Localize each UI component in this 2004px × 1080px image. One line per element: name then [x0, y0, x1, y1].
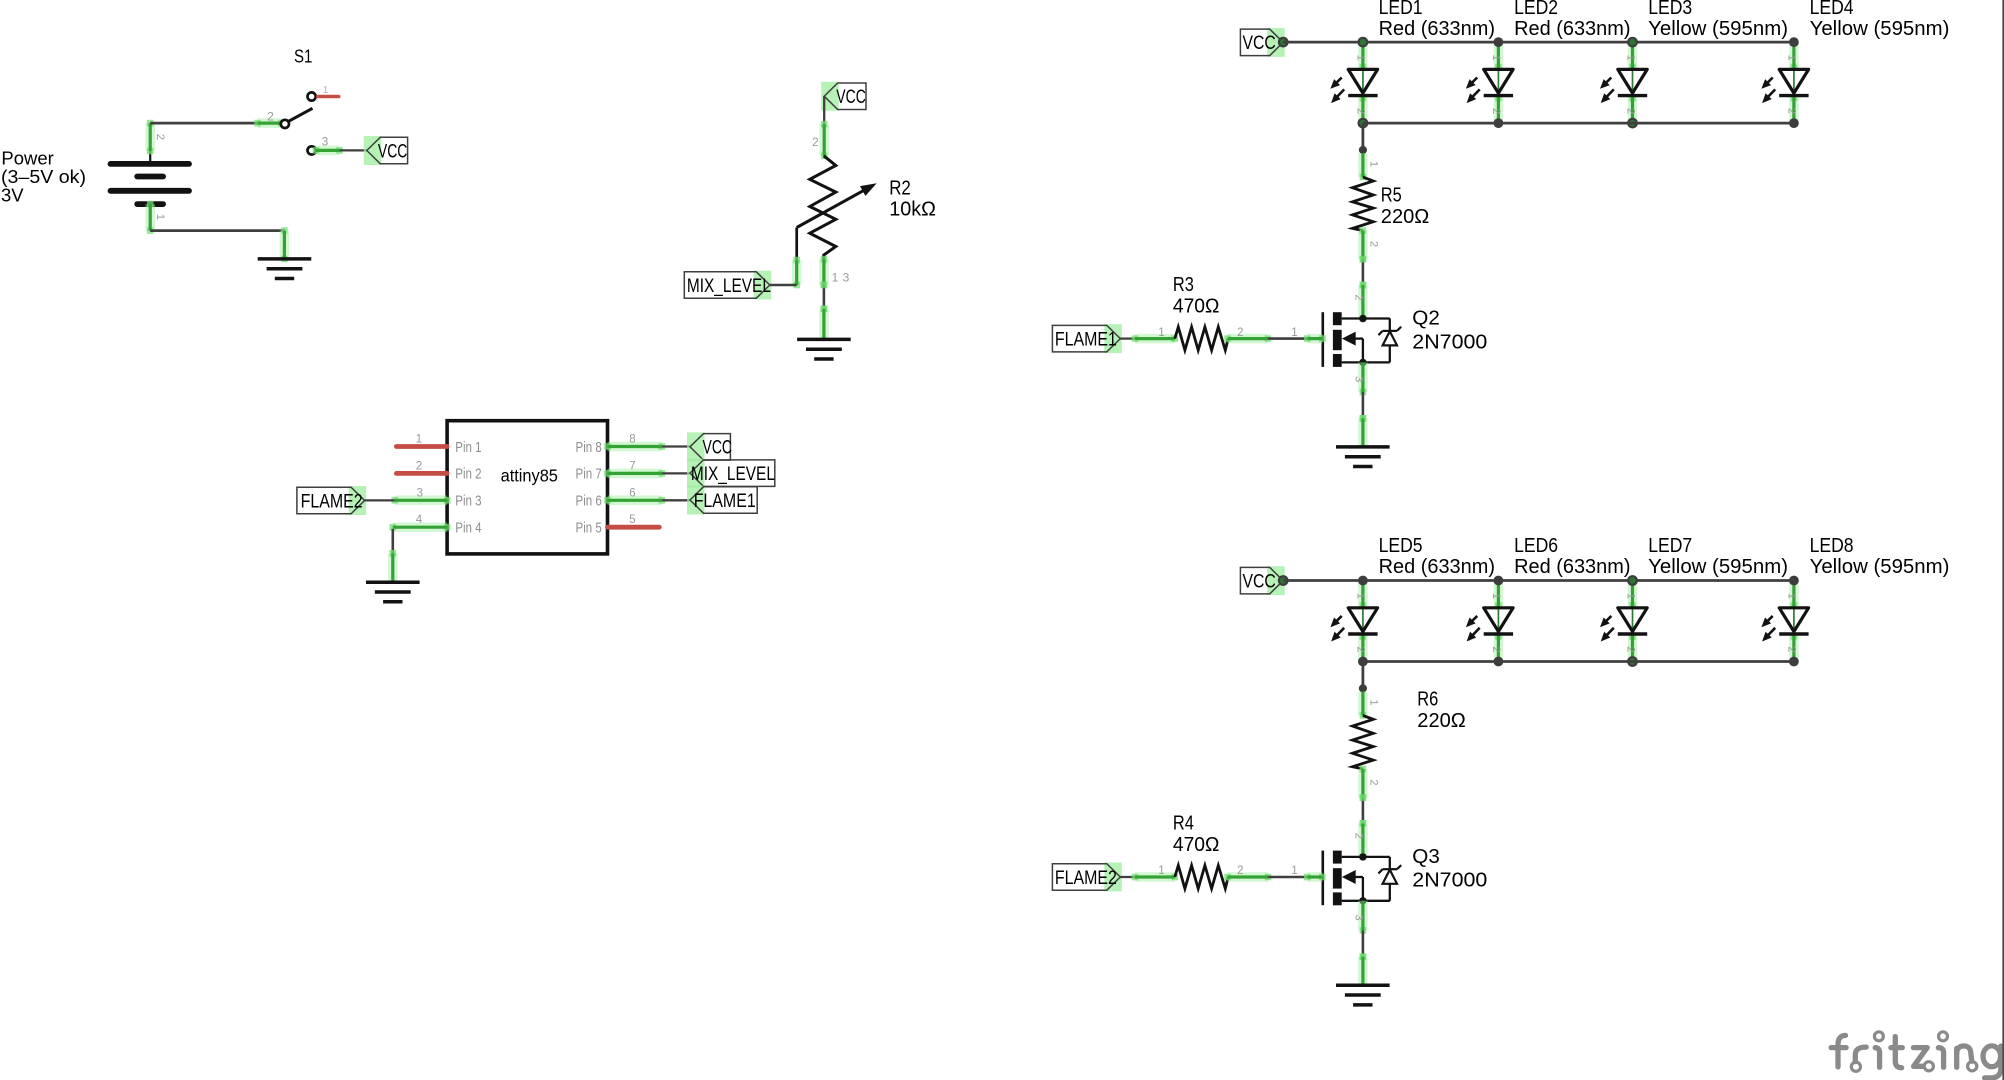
svg-text:LED8: LED8 [1810, 535, 1854, 557]
resistor R5 220 ohm zigzag [1353, 177, 1374, 231]
wire VCC flag to R2 pin2 [823, 96, 825, 124]
svg-text:2: 2 [267, 109, 274, 123]
svg-text:8: 8 [629, 434, 635, 446]
ground pin leg (R2) [821, 306, 828, 340]
svg-text:3: 3 [843, 271, 850, 285]
LED LED3 label [1648, 0, 1788, 40]
junction dot below LED column [1359, 684, 1367, 692]
svg-text:Pin 2: Pin 2 [455, 467, 481, 483]
svg-text:1: 1 [1786, 55, 1798, 61]
svg-text:LED3: LED3 [1648, 0, 1692, 19]
ground pin leg (Q3) [1360, 953, 1367, 985]
resistor R4 470 ohm zigzag [1175, 865, 1228, 888]
resistor R6 220 ohm zigzag [1353, 716, 1374, 770]
net flag FLAME2 (gate drive) [1052, 863, 1121, 892]
svg-text:1: 1 [832, 271, 839, 285]
ground pin leg (Q2) [1360, 415, 1367, 447]
svg-text:1: 1 [1490, 55, 1502, 61]
node LED5 cathode on bottom bus [1358, 657, 1368, 667]
node VCC on top bus [1279, 576, 1288, 585]
label R4 470 [1173, 813, 1220, 856]
LED LED6 symbol (pins 1,2) [1466, 581, 1513, 662]
junction dot below LED column [1359, 146, 1367, 154]
svg-text:2: 2 [154, 134, 166, 140]
svg-text:2N7000: 2N7000 [1412, 870, 1487, 892]
svg-text:1: 1 [1355, 55, 1367, 61]
wire top bus VCC [1283, 579, 1794, 582]
svg-text:LED5: LED5 [1379, 535, 1423, 557]
svg-text:Pin 5: Pin 5 [576, 521, 602, 537]
label Q3 2N7000 [1412, 846, 1487, 892]
label Q2 2N7000 [1412, 308, 1487, 354]
IC U1 attiny85 body [447, 421, 607, 554]
svg-text:470Ω: 470Ω [1173, 834, 1220, 856]
fritzing watermark logo [1831, 1032, 2001, 1078]
svg-text:1: 1 [1291, 327, 1297, 339]
wire R2 pin1 to ground [821, 282, 828, 313]
window right edge line [2002, 0, 2004, 1080]
svg-text:R4: R4 [1173, 813, 1194, 835]
svg-text:1: 1 [1158, 865, 1164, 877]
R2 wiper pin 3 leg [793, 257, 800, 289]
LED LED7 label [1648, 535, 1788, 578]
svg-text:1: 1 [1291, 865, 1297, 877]
svg-text:R6: R6 [1417, 688, 1438, 710]
LED LED6 label [1514, 535, 1630, 578]
svg-text:VCC: VCC [378, 141, 408, 162]
svg-text:Yellow (595nm): Yellow (595nm) [1810, 18, 1950, 40]
node LED7 cathode on bottom bus [1628, 657, 1637, 666]
svg-text:FLAME1: FLAME1 [1055, 329, 1117, 350]
svg-text:1: 1 [1158, 327, 1164, 339]
svg-text:2: 2 [1237, 865, 1243, 877]
transistor Q2 gate pin 1 leg [1291, 327, 1325, 342]
node LED2 cathode on bottom bus [1494, 118, 1504, 128]
LED LED5 symbol (pins 1,2) [1330, 581, 1377, 662]
gate resistor pin 1 leg [1132, 327, 1178, 342]
node LED7 anode on top bus [1628, 576, 1637, 585]
node LED1 cathode on bottom bus [1359, 119, 1368, 128]
wire MIX_LEVEL flag to wiper [770, 284, 797, 287]
wire battery- to ground [150, 227, 288, 234]
node LED8 anode on top bus [1789, 576, 1799, 586]
node LED8 cathode on bottom bus [1789, 657, 1799, 667]
svg-text:2: 2 [1490, 108, 1502, 114]
LED LED4 label [1810, 0, 1950, 40]
wire R6 to Q3 drain [1360, 794, 1367, 826]
net flag VCC (at switch) [364, 136, 408, 165]
svg-text:Red (633nm): Red (633nm) [1514, 556, 1630, 578]
svg-text:2: 2 [416, 460, 422, 472]
label R2 10k [889, 177, 936, 220]
ground symbol (IC pin4) [366, 582, 420, 602]
net flag VCC (at IC pin8) [687, 432, 732, 461]
battery label "Power (3-5V ok) 3V" [1, 148, 86, 206]
svg-text:Pin 8: Pin 8 [576, 440, 602, 456]
svg-text:1: 1 [154, 214, 166, 220]
net flag FLAME1 (gate drive) [1052, 324, 1121, 353]
potentiometer R2 resistive element [810, 156, 836, 260]
svg-text:Pin 3: Pin 3 [455, 494, 481, 510]
svg-text:10kΩ: 10kΩ [889, 199, 936, 221]
svg-text:2: 2 [1355, 646, 1367, 652]
node VCC on top bus [1279, 38, 1288, 47]
svg-text:Yellow (595nm): Yellow (595nm) [1648, 18, 1788, 40]
wire FLAME1 flag to gate resistor [1120, 337, 1135, 339]
svg-text:VCC: VCC [836, 87, 866, 108]
svg-text:R3: R3 [1173, 274, 1194, 296]
wire IC pin4 to ground [391, 529, 394, 553]
wire Q2 source to ground [1360, 392, 1367, 422]
battery pin 1 leg (negative) [147, 201, 166, 234]
svg-text:LED4: LED4 [1810, 0, 1854, 19]
svg-text:LED2: LED2 [1514, 0, 1558, 19]
transistor Q3 source pin 3 leg [1352, 901, 1366, 934]
net flag MIX_LEVEL (at R2) [684, 271, 771, 300]
wire R5 to Q2 drain [1360, 256, 1367, 288]
svg-text:Red (633nm): Red (633nm) [1514, 18, 1630, 40]
gate resistor pin 1 leg [1132, 865, 1178, 880]
transistor Q2 source pin 3 leg [1352, 362, 1366, 395]
svg-text:2: 2 [1624, 646, 1636, 652]
svg-text:3: 3 [1352, 376, 1364, 382]
svg-text:Pin 6: Pin 6 [576, 494, 602, 510]
net flag MIX_LEVEL (at IC pin7) [687, 459, 775, 488]
IC pin name labels [455, 440, 602, 537]
transistor Q3 2N7000 [1323, 851, 1401, 906]
svg-text:470Ω: 470Ω [1173, 296, 1220, 318]
wire bottom bus to junction [1362, 662, 1365, 689]
wire battery+ to switch common [150, 122, 257, 125]
ground pin leg (battery) [281, 231, 288, 263]
svg-text:1: 1 [1490, 593, 1502, 599]
svg-text:5: 5 [629, 514, 635, 526]
svg-text:1: 1 [1367, 161, 1379, 167]
node LED5 anode on top bus [1358, 576, 1368, 586]
transistor Q3 gate pin 1 leg [1291, 865, 1325, 880]
node LED4 cathode on bottom bus [1789, 118, 1799, 128]
wire bottom bus (LED cathodes) [1363, 122, 1794, 125]
svg-text:2: 2 [1367, 779, 1379, 785]
svg-text:2: 2 [1352, 833, 1364, 839]
svg-text:2: 2 [1355, 108, 1367, 114]
ground pin leg (IC pin4) [390, 550, 397, 582]
node LED6 cathode on bottom bus [1494, 657, 1504, 667]
IC pin 2 red stub (unconnected) [396, 460, 447, 473]
svg-text:MIX_LEVEL: MIX_LEVEL [691, 464, 775, 485]
net flag VCC (LED group LED5) [1240, 566, 1284, 595]
svg-text:R2: R2 [889, 177, 911, 199]
net flag FLAME2 (at IC pin3) [297, 486, 366, 515]
svg-text:3: 3 [322, 135, 329, 149]
LED LED2 label [1514, 0, 1630, 40]
svg-text:Q2: Q2 [1412, 308, 1440, 330]
svg-text:attiny85: attiny85 [501, 466, 558, 486]
svg-text:1: 1 [1367, 699, 1379, 705]
svg-text:MIX_LEVEL: MIX_LEVEL [687, 276, 771, 297]
IC pin 7 leg [604, 460, 665, 476]
svg-text:3: 3 [417, 487, 423, 499]
svg-text:Pin 4: Pin 4 [455, 521, 481, 537]
svg-text:VCC: VCC [703, 438, 733, 459]
wire R4 to Q3 gate [1268, 876, 1307, 879]
svg-text:Yellow (595nm): Yellow (595nm) [1810, 556, 1950, 578]
IC pin 1 red stub (unconnected) [396, 434, 447, 447]
wire FLAME2 flag to IC pin3 [365, 499, 395, 501]
switch pin 2 leg [254, 109, 284, 126]
R2 pin 2 leg [812, 121, 827, 159]
label R5 220 [1381, 184, 1430, 228]
LED LED4 symbol (pins 1,2) [1761, 42, 1808, 123]
resistor R5 pin 2 leg [1360, 227, 1380, 262]
svg-text:R5: R5 [1381, 184, 1402, 206]
switch pin 1 red stub (unconnected) [318, 85, 339, 97]
svg-text:FLAME2: FLAME2 [301, 491, 363, 512]
svg-text:3V: 3V [1, 185, 24, 206]
wire switch pin3 to VCC flag [340, 149, 367, 151]
svg-text:220Ω: 220Ω [1417, 710, 1466, 732]
svg-text:2: 2 [1786, 646, 1798, 652]
resistor R6 pin 1 leg [1360, 692, 1380, 719]
IC pin 5 red stub (unconnected) [608, 514, 660, 527]
ground symbol (R2) [797, 339, 851, 359]
svg-text:Pin 1: Pin 1 [455, 440, 481, 456]
net flag VCC (LED group LED1) [1240, 28, 1284, 57]
wire top bus VCC [1283, 41, 1794, 44]
svg-text:2: 2 [1367, 241, 1379, 247]
svg-text:2: 2 [1237, 327, 1243, 339]
svg-text:6: 6 [629, 487, 635, 499]
svg-text:1: 1 [323, 85, 329, 96]
svg-text:FLAME1: FLAME1 [694, 491, 756, 512]
IC pin 8 leg [604, 434, 665, 450]
ground symbol (battery) [258, 259, 312, 279]
node LED1 anode on top bus [1359, 38, 1368, 47]
LED LED8 label [1810, 535, 1950, 578]
LED LED7 symbol (pins 1,2) [1600, 581, 1647, 662]
svg-text:VCC: VCC [1243, 33, 1276, 54]
wire R3 to Q2 gate [1268, 337, 1307, 340]
resistor R4 pin 2 leg [1224, 865, 1271, 880]
wire IC pin8 to VCC flag [662, 445, 690, 447]
transistor Q2 drain pin 2 leg [1352, 282, 1366, 322]
wire bottom bus (LED cathodes) [1363, 660, 1794, 663]
wire IC pin6 to FLAME1 flag [662, 499, 690, 501]
svg-text:FLAME2: FLAME2 [1055, 868, 1117, 889]
label R6 220 [1417, 688, 1466, 731]
svg-text:2N7000: 2N7000 [1412, 331, 1487, 353]
net flag FLAME1 (at IC pin6) [687, 486, 757, 515]
svg-text:Pin 7: Pin 7 [576, 467, 602, 483]
ground symbol (Q2) [1336, 447, 1390, 467]
svg-text:2: 2 [1352, 294, 1364, 300]
node LED3 anode on top bus [1628, 38, 1637, 47]
wire Q3 source to ground [1360, 930, 1367, 960]
svg-text:S1: S1 [294, 45, 312, 66]
switch S1 (SPDT) [281, 92, 316, 154]
switch pin 3 leg [313, 135, 343, 154]
potentiometer R2 wiper arrow [797, 183, 877, 260]
svg-text:2: 2 [1786, 108, 1798, 114]
svg-text:2: 2 [1490, 646, 1502, 652]
IC pin 3 leg [392, 487, 451, 503]
svg-text:2: 2 [1624, 108, 1636, 114]
net flag VCC (at R2) [821, 82, 866, 111]
svg-text:1: 1 [1624, 55, 1636, 61]
R2 pin 1 leg [821, 256, 850, 288]
svg-text:LED6: LED6 [1514, 535, 1558, 557]
svg-text:LED7: LED7 [1648, 535, 1692, 557]
IC pin 4 leg [390, 514, 451, 530]
svg-text:Red (633nm): Red (633nm) [1379, 556, 1495, 578]
resistor R6 pin 2 leg [1360, 766, 1380, 801]
transistor Q3 drain pin 2 leg [1352, 820, 1366, 860]
battery BT1 3V [111, 151, 190, 204]
transistor Q2 2N7000 [1323, 312, 1401, 367]
svg-text:1: 1 [1355, 593, 1367, 599]
LED LED1 symbol (pins 1,2) [1330, 42, 1377, 123]
svg-text:VCC: VCC [1243, 572, 1276, 593]
svg-text:7: 7 [629, 460, 635, 472]
IC pin 6 leg [604, 487, 665, 503]
battery pin 2 leg (positive) [147, 120, 166, 155]
resistor R3 pin 2 leg [1224, 327, 1271, 342]
svg-text:1: 1 [1624, 593, 1636, 599]
LED LED3 symbol (pins 1,2) [1600, 42, 1647, 123]
svg-text:Red (633nm): Red (633nm) [1379, 18, 1495, 40]
resistor R3 470 ohm zigzag [1175, 327, 1228, 350]
svg-text:1: 1 [416, 434, 422, 446]
svg-text:Q3: Q3 [1412, 846, 1440, 868]
node LED6 anode on top bus [1494, 576, 1504, 586]
svg-text:3: 3 [1352, 914, 1364, 920]
svg-text:2: 2 [812, 135, 819, 149]
wire FLAME2 flag to gate resistor [1120, 876, 1135, 878]
LED LED8 symbol (pins 1,2) [1761, 581, 1808, 662]
ground symbol (Q3) [1336, 985, 1390, 1005]
LED LED2 symbol (pins 1,2) [1466, 42, 1513, 123]
svg-text:Yellow (595nm): Yellow (595nm) [1648, 556, 1788, 578]
resistor R5 pin 1 leg [1360, 153, 1380, 180]
label R3 470 [1173, 274, 1220, 317]
svg-text:1: 1 [1786, 593, 1798, 599]
wire bottom bus to junction [1362, 123, 1365, 150]
LED LED5 label [1379, 535, 1495, 578]
LED LED1 label [1379, 0, 1495, 40]
svg-text:4: 4 [416, 514, 423, 526]
node LED2 anode on top bus [1494, 37, 1504, 47]
svg-text:LED1: LED1 [1379, 0, 1423, 19]
label S1 [294, 45, 312, 66]
svg-text:220Ω: 220Ω [1381, 206, 1430, 228]
node LED3 cathode on bottom bus [1628, 119, 1637, 128]
node LED4 anode on top bus [1789, 37, 1799, 47]
wire IC pin7 to MIX_LEVEL flag [662, 472, 690, 474]
